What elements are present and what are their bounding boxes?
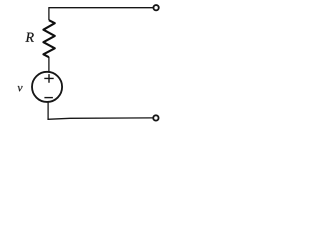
voltage source v: circle (32, 72, 62, 102)
wire: bottom horizontal (47, 118, 152, 119)
wire: resistor top lead (48, 7, 50, 20)
terminal b (bottom right, open circle) (153, 115, 158, 120)
wire: source bottom lead (47, 102, 49, 120)
wire: resistor bottom lead (48, 57, 50, 72)
voltage source v: plus sign (44, 74, 53, 83)
voltage source v: minus sign (44, 97, 53, 99)
resistor R (43, 20, 54, 57)
label R (25, 33, 33, 42)
terminal a (top right, open circle) (153, 5, 158, 10)
wire: top horizontal (49, 7, 153, 9)
label v (18, 86, 23, 91)
